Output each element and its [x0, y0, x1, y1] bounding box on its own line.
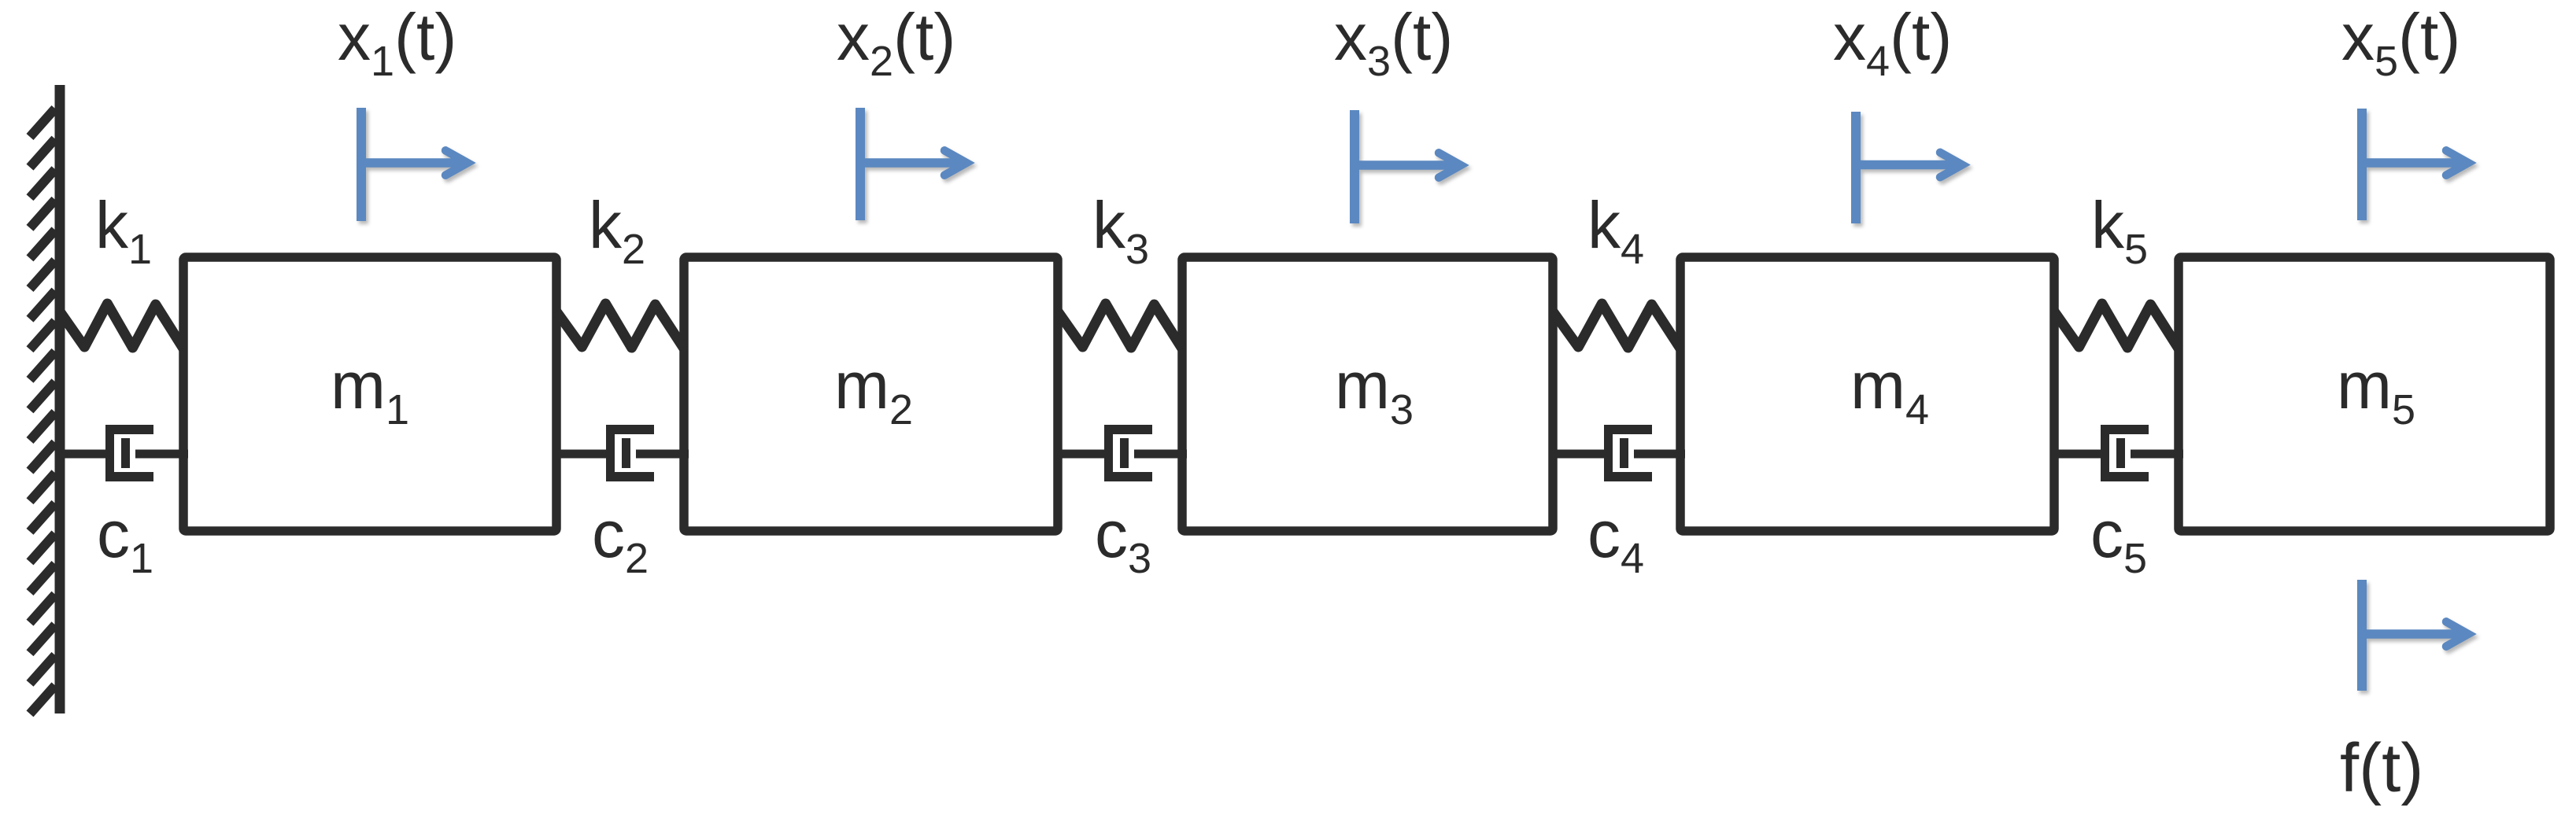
- svg-text:f(t): f(t): [2340, 730, 2423, 806]
- svg-text:x4(t): x4(t): [1833, 0, 1952, 85]
- svg-text:x3(t): x3(t): [1334, 0, 1453, 85]
- svg-text:x1(t): x1(t): [338, 0, 456, 85]
- svg-text:x5(t): x5(t): [2341, 0, 2460, 85]
- svg-text:x2(t): x2(t): [837, 0, 955, 85]
